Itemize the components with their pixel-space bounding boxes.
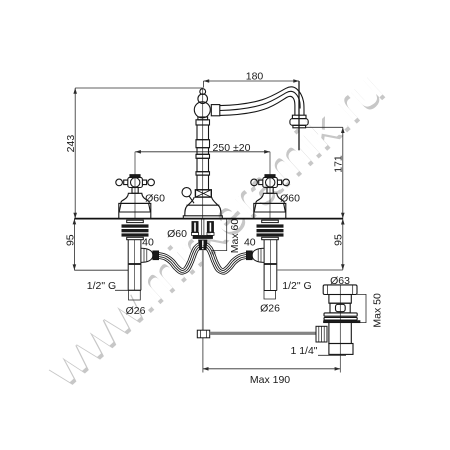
handle cap R: [265, 175, 275, 178]
drain assembly: [323, 285, 360, 355]
right nipple: [207, 222, 213, 233]
gasket bar: [324, 321, 360, 323]
plinth cone R: [254, 203, 285, 212]
drain neck: [329, 295, 351, 304]
x-box diagonals: [195, 190, 211, 197]
ball left L: [116, 179, 123, 186]
column ring collar 1: [196, 120, 210, 125]
flange inner lines: [328, 285, 353, 295]
svg-text:Max 190: Max 190: [250, 374, 290, 386]
tail tube L: [128, 240, 141, 291]
ball left R: [251, 179, 258, 186]
arrow 95L bottom: [73, 264, 77, 270]
column ring collar 3: [196, 154, 210, 158]
column barrel 4: [197, 175, 209, 190]
popup knob: [182, 188, 191, 197]
collar2 R: [262, 237, 279, 239]
spout finial small ball: [200, 89, 206, 95]
arrow 180 right: [293, 79, 299, 83]
hub circle L: [131, 178, 140, 187]
tube centerline R: [270, 240, 272, 291]
spout bell base: [185, 197, 221, 216]
drain linkage nut: [316, 326, 327, 342]
svg-text:Ø26: Ø26: [260, 302, 280, 314]
dim 180 left tick: [203, 81, 205, 88]
spout collar: [211, 105, 220, 116]
svg-text:Ø60: Ø60: [145, 192, 165, 204]
right handle centerline: [269, 152, 271, 219]
arm right L: [142, 180, 146, 185]
arm left R: [259, 180, 263, 185]
left handle centerline: [134, 152, 136, 219]
svg-text:Ø60: Ø60: [280, 193, 300, 205]
tube thread band L: [129, 263, 141, 265]
left valve below deck: [122, 220, 159, 290]
left o26 bracket: [129, 290, 141, 300]
left nipple slot: [194, 223, 196, 232]
spout main ball: [194, 102, 210, 118]
hose union slot: [202, 241, 204, 250]
drain body: [330, 303, 350, 313]
elbow lines R: [258, 249, 261, 262]
column barrel 2: [197, 148, 209, 155]
arrow 250 left: [135, 150, 141, 154]
arm right R: [277, 180, 281, 185]
svg-text:Ø26: Ø26: [126, 305, 146, 317]
hub circle R: [266, 178, 275, 187]
right handle group: [251, 175, 290, 219]
plinth R: [254, 203, 286, 218]
right hose: [203, 242, 248, 274]
arrow 171 bottom: [341, 213, 345, 219]
top extension line to 243: [75, 87, 203, 89]
arrow 95L top: [73, 219, 77, 225]
spout arm mid contour: [220, 91, 300, 110]
left nipple: [192, 222, 198, 233]
svg-text:40: 40: [244, 237, 256, 249]
outlet step ring: [292, 115, 306, 118]
left handle group: [116, 175, 155, 219]
right o26 bracket: [264, 291, 276, 300]
column neck: [198, 117, 208, 120]
tailpiece: [329, 344, 353, 355]
svg-text:1/2" G: 1/2" G: [87, 280, 116, 292]
svg-text:Max 60: Max 60: [229, 219, 241, 254]
plinth L: [119, 203, 151, 218]
svg-text:95: 95: [65, 234, 77, 246]
plinth mid line R: [254, 211, 286, 213]
spout centerline: [202, 89, 204, 219]
dim 171 and 95 right line: [342, 127, 344, 270]
tube thread band R: [265, 263, 277, 265]
dim max190 line: [203, 368, 340, 370]
left 95 to tube link: [74, 269, 128, 271]
outlet bell: [290, 119, 308, 126]
svg-text:40: 40: [142, 237, 154, 249]
locknut ribs L: [122, 224, 149, 236]
arrow 243 top: [73, 88, 77, 94]
deck line: [74, 218, 342, 220]
plinth mid line L: [119, 211, 151, 213]
dim 243 line: [74, 88, 76, 219]
right nipple slot: [209, 223, 211, 232]
watermark www...ru: [32, 58, 395, 399]
svg-text:1 1/4": 1 1/4": [290, 345, 317, 357]
svg-text:95: 95: [332, 234, 344, 246]
spout finial ball: [198, 94, 208, 104]
elbow lines L: [144, 249, 147, 262]
max60 bracket: [212, 219, 227, 251]
arrow 171 top: [341, 127, 345, 133]
collar1 R: [262, 220, 279, 222]
neck R: [267, 188, 273, 194]
right valve below deck: [247, 220, 284, 290]
171 link to outlet: [305, 126, 343, 128]
drain centerline: [339, 285, 341, 373]
washer2: [324, 317, 357, 320]
popup vertical rod: [202, 250, 204, 331]
plinth cone L: [119, 203, 150, 212]
arrow 95R top: [341, 219, 345, 225]
popup knob stem: [189, 196, 194, 203]
bonnet R: [256, 193, 285, 203]
svg-text:Max 50: Max 50: [372, 293, 384, 328]
arrow 95R bottom: [341, 264, 345, 270]
dim 95 left line: [73, 219, 75, 271]
hub L: [128, 177, 143, 187]
max190 left extension: [202, 338, 204, 373]
left hose: [158, 242, 203, 274]
svg-text:243: 243: [65, 135, 77, 153]
left half-G leader: [115, 289, 141, 291]
rod clamp: [197, 330, 209, 338]
washer1: [324, 313, 357, 316]
tail tube R: [264, 240, 277, 291]
center manifold below deck: [192, 219, 215, 250]
elbow bulge L: [141, 248, 153, 262]
elbow nut R: [247, 251, 253, 260]
column barrel 3: [197, 158, 209, 171]
arrow max190 right: [335, 367, 341, 371]
max50 bracket: [357, 294, 366, 322]
svg-text:1/2" G: 1/2" G: [282, 280, 311, 292]
locknut ribs R: [257, 224, 284, 236]
hose union: [199, 240, 207, 250]
drain hole: [336, 304, 346, 311]
nipple collars: [192, 232, 215, 235]
elbow bulge R: [252, 248, 264, 262]
arm left L: [124, 180, 128, 185]
dim 250 line: [135, 151, 270, 153]
handle cap L: [130, 175, 140, 178]
outlet bottom rim: [293, 125, 306, 128]
dimension texts: [65, 70, 384, 386]
dim 180 line: [204, 80, 300, 82]
neck L: [132, 188, 138, 194]
arrow 243 bottom: [73, 213, 77, 219]
drain tube: [329, 320, 351, 343]
1 1/4 leader: [318, 354, 346, 356]
column ring collar 4: [196, 172, 210, 175]
popup horizontal rod: [210, 332, 316, 335]
spout arm top contour: [220, 87, 304, 115]
column barrel 1: [197, 125, 209, 140]
dimension arrows: [73, 79, 345, 370]
arrow 250 right: [264, 150, 270, 154]
manifold bar: [193, 236, 212, 239]
spout base flange: [183, 216, 222, 219]
arrow 180 left: [204, 79, 210, 83]
tube centerline L: [134, 240, 136, 291]
hub R: [263, 177, 278, 187]
svg-text:Ø60: Ø60: [167, 228, 187, 240]
svg-text:171: 171: [332, 155, 344, 173]
svg-text:250 ±20: 250 ±20: [213, 142, 251, 154]
spout outlet extension line: [298, 81, 300, 150]
column ring collar 2: [196, 140, 210, 148]
right 95 to tube link: [277, 269, 342, 271]
bonnet L: [121, 193, 150, 203]
collar2 L: [127, 237, 144, 239]
rod housing: [202, 219, 204, 235]
spout arm bottom contour: [220, 96, 295, 115]
ball right L: [148, 179, 155, 186]
collar1 L: [127, 220, 144, 222]
svg-text:180: 180: [246, 70, 264, 82]
ball right R: [283, 179, 290, 186]
x-box: [195, 190, 211, 197]
flange: [323, 285, 357, 295]
arrow max190 left: [203, 367, 209, 371]
elbow nut L: [153, 251, 159, 260]
